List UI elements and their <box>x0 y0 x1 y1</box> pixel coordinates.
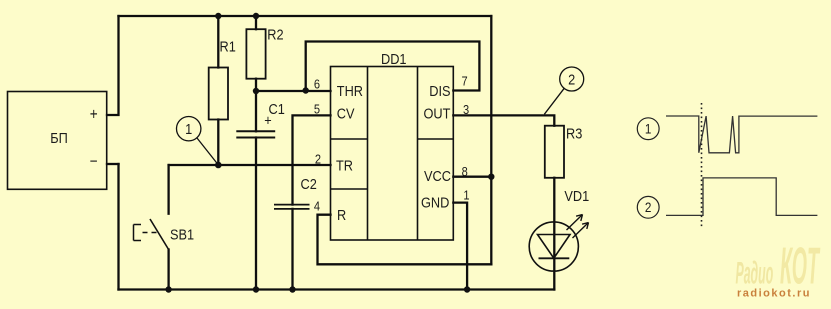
IC DD1 (555 timer) <box>314 50 470 240</box>
wire R1 bottom lead <box>217 120 219 166</box>
svg-text:OUT: OUT <box>423 105 450 122</box>
switch SB1 <box>134 219 195 250</box>
wire from top rail to BP plus terminal <box>107 16 119 115</box>
waveform 2 label circle <box>637 196 659 218</box>
wire GND pin to bottom rail <box>453 203 467 290</box>
svg-text:+: + <box>264 111 271 128</box>
node VCC junction <box>488 174 494 180</box>
wire R2 bottom lead <box>255 79 257 91</box>
wire BP minus stub <box>107 163 119 165</box>
wire THR net horizontal <box>256 90 331 92</box>
svg-text:TR: TR <box>336 156 353 173</box>
wire OUT net to R3 <box>453 115 554 125</box>
wire C2 bottom lead <box>291 209 293 290</box>
svg-text:THR: THR <box>337 82 363 99</box>
svg-text:−: − <box>90 153 98 171</box>
svg-text:VD1: VD1 <box>564 187 589 204</box>
svg-text:8: 8 <box>462 164 468 179</box>
IC body outline <box>331 67 454 241</box>
svg-text:DD1: DD1 <box>381 50 407 67</box>
resistor R1 <box>209 37 236 119</box>
wire VCC vertical <box>490 16 492 264</box>
svg-text:Радио: Радио <box>736 256 774 292</box>
capacitor C1 <box>236 100 285 138</box>
waveform 1 label circle <box>637 118 659 140</box>
waveform 2 trace <box>666 178 817 216</box>
node R1 top rail junction <box>215 13 221 19</box>
LED VD1 <box>529 187 589 271</box>
wire top rail <box>119 15 492 17</box>
waveform 1 trace <box>666 116 817 153</box>
node R2 top rail junction <box>253 13 259 19</box>
svg-text:CV: CV <box>337 105 355 122</box>
node GND bottom rail junction <box>464 286 470 292</box>
svg-text:6: 6 <box>314 77 320 92</box>
node C1 bottom rail junction <box>253 286 259 292</box>
wire bottom rail <box>119 288 555 290</box>
svg-text:R: R <box>337 206 346 223</box>
svg-text:radiokot.ru: radiokot.ru <box>737 287 811 299</box>
resistor R2 <box>246 25 283 78</box>
node C2 bottom rail junction <box>289 286 295 292</box>
svg-text:БП: БП <box>50 129 68 146</box>
svg-text:VCC: VCC <box>424 167 451 184</box>
wire left vertical to bottom rail <box>117 164 119 290</box>
resistor R3 <box>545 124 583 177</box>
wire SB1 bottom contact <box>167 250 169 290</box>
wire DIS to THR loop <box>306 42 480 91</box>
node SB1 bottom rail junction <box>165 286 171 292</box>
svg-text:SB1: SB1 <box>170 225 194 242</box>
wire TR net horizontal <box>169 164 331 166</box>
svg-text:1: 1 <box>645 121 652 137</box>
callout node 2 <box>544 67 583 114</box>
IC inner column dividers <box>368 67 418 241</box>
svg-text:C2: C2 <box>301 175 317 192</box>
capacitor C2 <box>274 175 317 209</box>
wire SB1 top contact <box>167 165 169 214</box>
wire C1 top lead <box>255 91 257 131</box>
watermark Radio KOT logo <box>736 237 821 295</box>
svg-text:R1: R1 <box>220 37 236 54</box>
svg-text:+: + <box>90 105 98 123</box>
svg-text:DIS: DIS <box>429 82 450 99</box>
svg-text:5: 5 <box>314 102 320 117</box>
wire R3 to LED to bottom rail <box>553 178 555 290</box>
svg-text:2: 2 <box>645 199 652 215</box>
svg-text:3: 3 <box>463 102 469 117</box>
svg-text:GND: GND <box>421 193 449 210</box>
svg-text:4: 4 <box>314 199 320 214</box>
svg-text:1: 1 <box>185 120 192 137</box>
IC cell dividers <box>331 139 454 189</box>
wire R1 top lead <box>217 16 219 68</box>
node THR / DIS loop junction <box>303 87 309 93</box>
timing dotted reference line <box>701 103 703 226</box>
power supply BP box <box>8 92 107 190</box>
callout node 1 <box>177 117 219 165</box>
svg-text:2: 2 <box>315 152 321 167</box>
svg-text:7: 7 <box>462 74 468 89</box>
wire R pin loop to VCC rail <box>318 215 492 265</box>
wire CV net <box>293 115 331 204</box>
wire C1 bottom lead <box>255 138 257 290</box>
svg-text:1: 1 <box>463 188 469 203</box>
node TR / R1 junction <box>215 162 222 169</box>
svg-text:2: 2 <box>568 70 575 87</box>
node R2 bottom / C1 junction <box>253 88 259 94</box>
svg-text:R3: R3 <box>566 124 582 141</box>
wire VCC pin <box>453 176 491 178</box>
svg-text:R2: R2 <box>267 25 283 42</box>
wire R2 top lead <box>255 16 257 29</box>
